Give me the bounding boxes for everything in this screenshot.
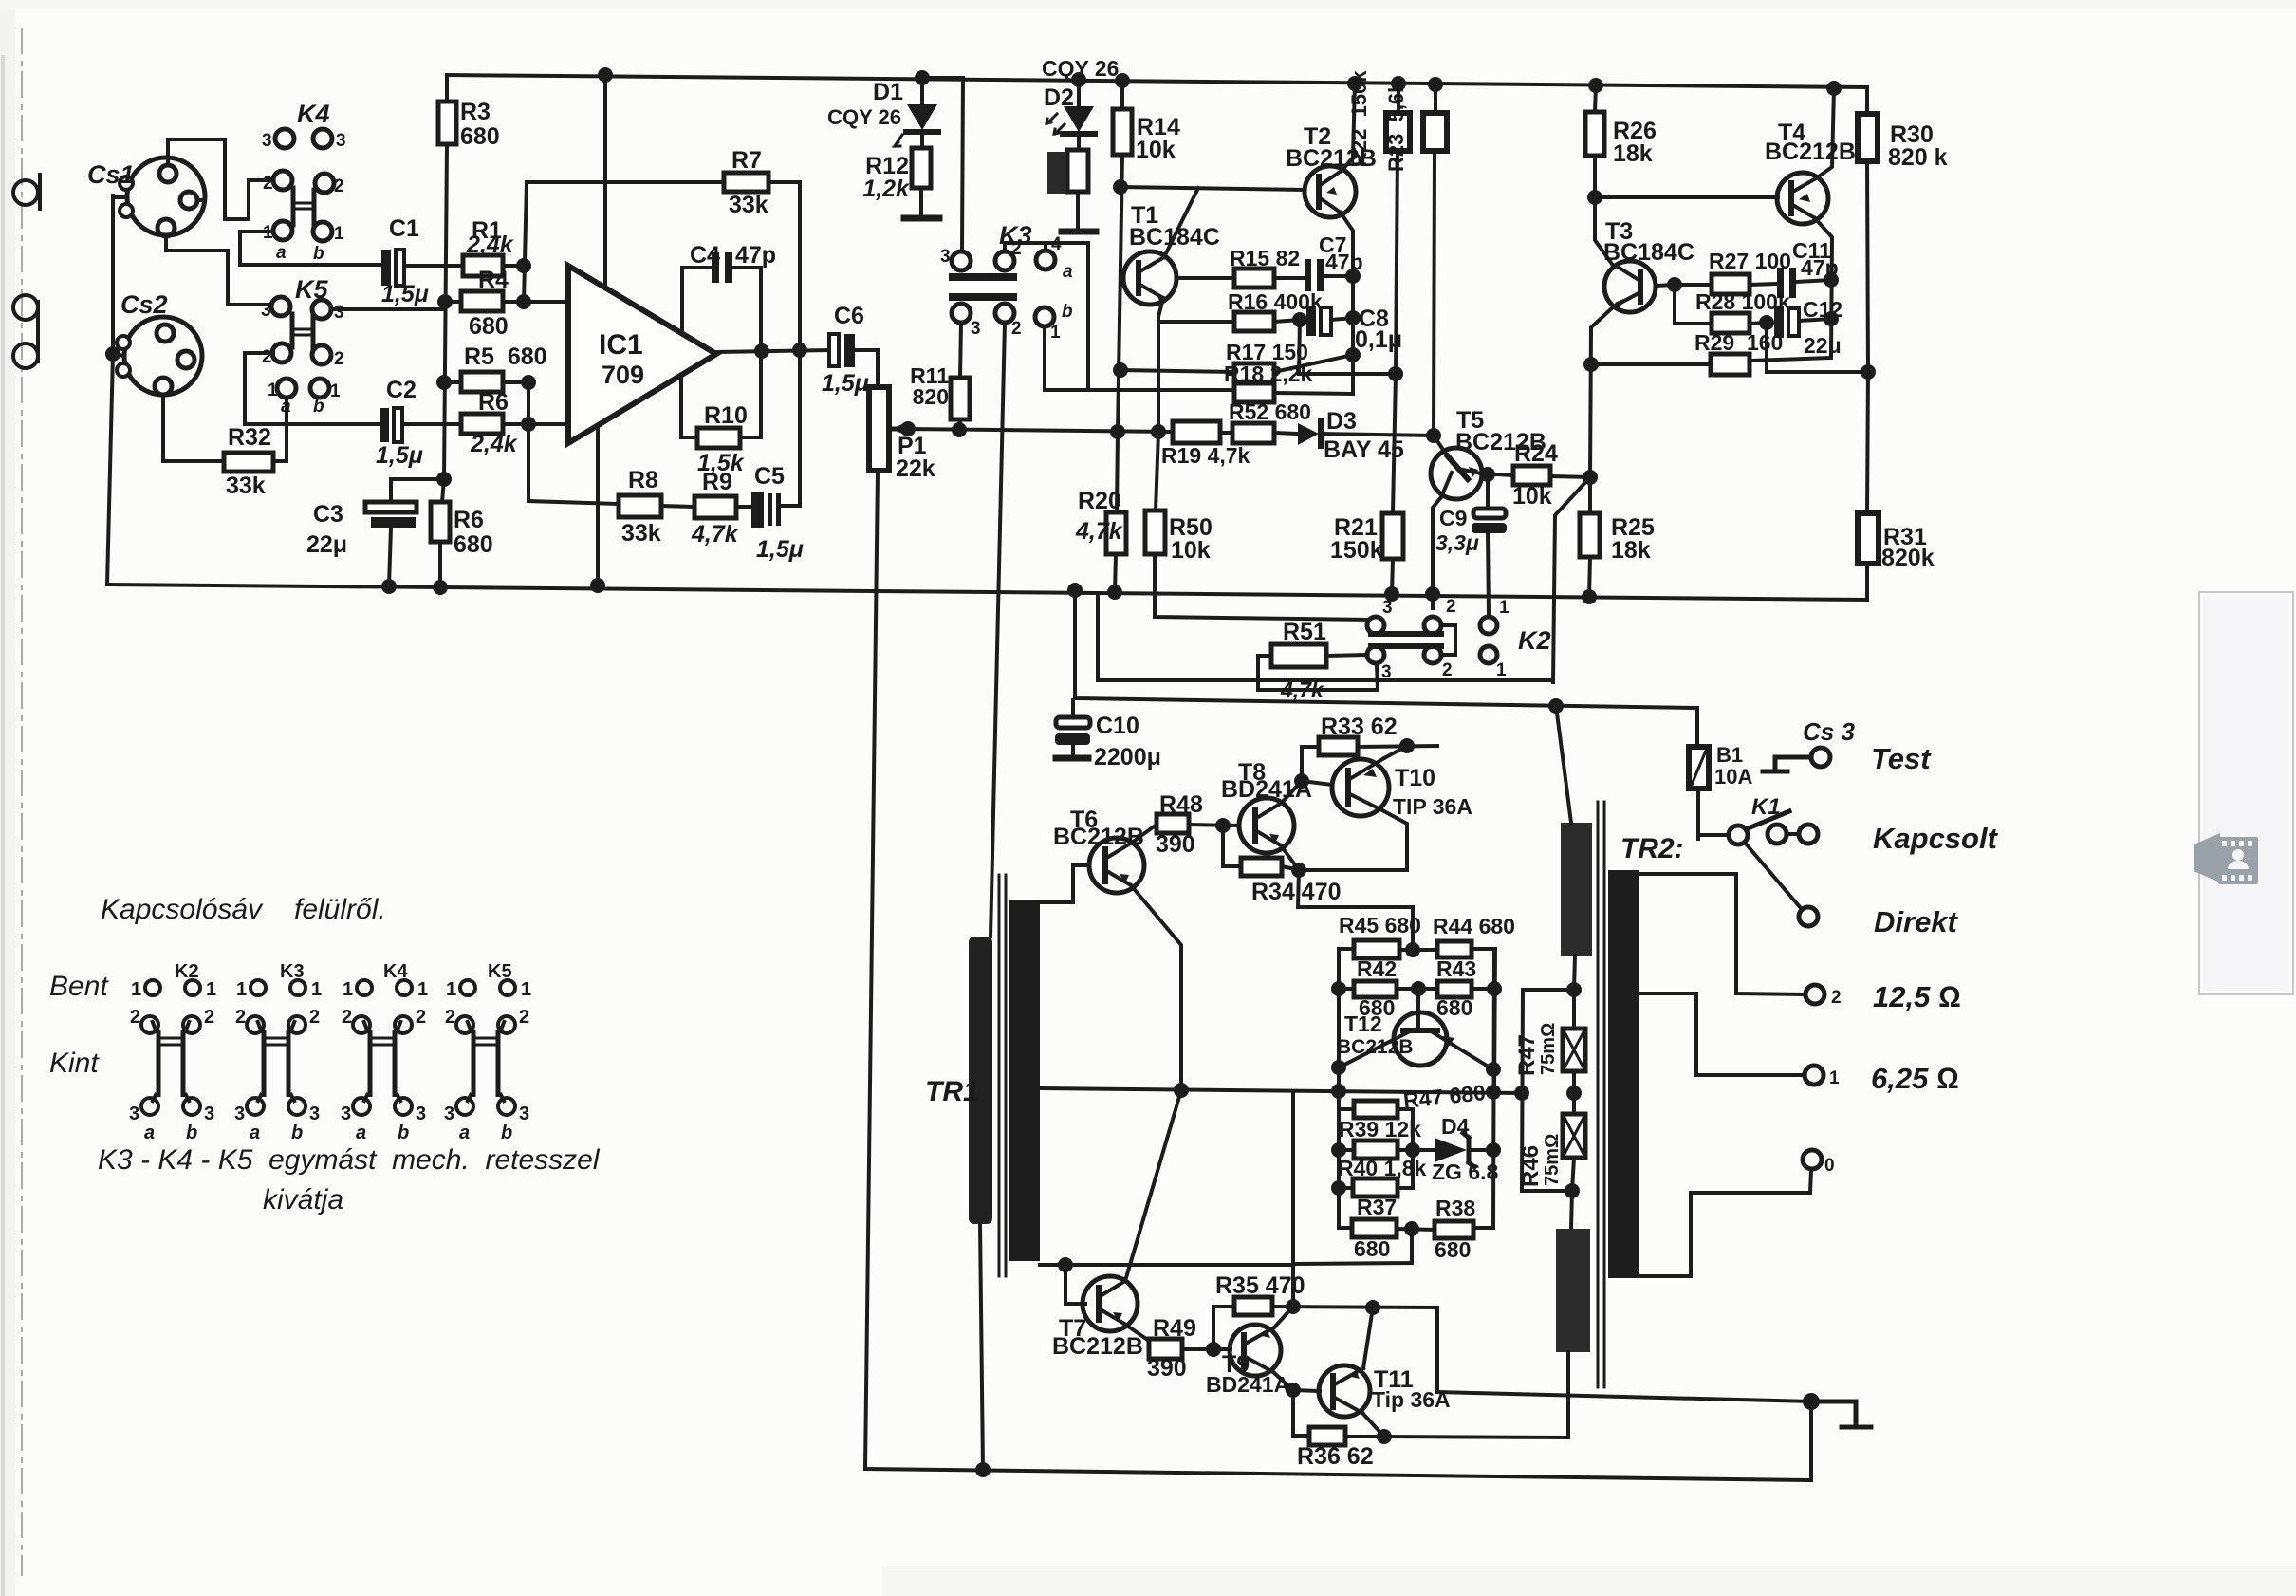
wire T9 collector	[1274, 1307, 1293, 1327]
transistor T2	[1305, 166, 1356, 217]
node C8 right	[1347, 312, 1359, 324]
node wiper R20	[1112, 426, 1123, 437]
svg-text:C1: C1	[389, 215, 419, 242]
svg-text:C9: C9	[1439, 506, 1467, 530]
wire T5 emitter branch to K2 box	[1553, 477, 1590, 682]
svg-text:a: a	[1063, 262, 1073, 282]
capacitor C6	[829, 334, 855, 367]
resistor R40	[1353, 1178, 1398, 1197]
wire P1 bottom to ground bus	[865, 471, 878, 1469]
svg-text:BAY 45: BAY 45	[1324, 436, 1404, 463]
resistor R43	[1437, 981, 1472, 997]
svg-text:22μ: 22μ	[1804, 333, 1842, 358]
wire K3 feed from bus	[922, 78, 963, 251]
switch K4	[273, 129, 334, 241]
svg-text:R6: R6	[478, 389, 509, 416]
resistor R22	[1386, 84, 1410, 374]
wire block output drop	[1291, 1091, 1295, 1307]
wire R37 block bottom	[1293, 1229, 1412, 1264]
svg-text:TR2:: TR2:	[1620, 833, 1684, 864]
svg-text:R19 4,7k: R19 4,7k	[1161, 443, 1250, 468]
resistor R37	[1352, 1219, 1397, 1237]
svg-text:R9: R9	[702, 469, 732, 495]
wire top supply bus	[447, 75, 1867, 87]
wire input vertical B	[528, 382, 619, 504]
wire T11 base	[1293, 1390, 1320, 1391]
legend texts	[49, 894, 601, 1216]
svg-text:3: 3	[1382, 598, 1393, 618]
svg-text:Test: Test	[1871, 742, 1932, 775]
svg-text:33k: 33k	[226, 473, 266, 499]
wire R45 R44 row	[1339, 949, 1495, 1092]
wire T3 collector	[1595, 197, 1614, 267]
svg-text:22k: 22k	[896, 455, 935, 482]
svg-text:2,4k: 2,4k	[470, 431, 518, 457]
svg-text:BC184C: BC184C	[1129, 224, 1220, 251]
svg-text:1: 1	[263, 223, 273, 243]
node T1 emitter R16	[1157, 315, 1160, 319]
wire R40 row	[1339, 1150, 1413, 1188]
svg-text:Kint: Kint	[49, 1048, 100, 1079]
svg-text:R23 5,6k: R23 5,6k	[1384, 81, 1408, 172]
node R17 right	[1347, 349, 1359, 361]
resistor R21	[1382, 374, 1403, 594]
svg-text:K3 - K4 - K5 egymást mech.: K3 - K4 - K5 egymást mech. retesszel	[98, 1144, 601, 1176]
svg-text:1: 1	[1050, 323, 1061, 343]
svg-text:R46: R46	[1518, 1145, 1544, 1187]
svg-text:2: 2	[334, 176, 344, 196]
svg-text:D1: D1	[873, 79, 903, 105]
svg-text:CQY 26: CQY 26	[827, 105, 901, 129]
node IC1 vplus bus	[600, 69, 611, 81]
resistor R50	[1145, 432, 1369, 620]
transformer TR2 core	[1598, 802, 1604, 1387]
node T5 collector ground	[1427, 588, 1438, 600]
resistor R47b 680	[1339, 1101, 1413, 1150]
resistor R38	[1435, 1221, 1473, 1238]
feedback R8 R9 C5 row	[619, 350, 800, 507]
wire K5 2a to C2	[245, 353, 380, 424]
node R20 ground	[1109, 586, 1120, 598]
wire Cs2 left link	[113, 354, 124, 356]
resistor R6b 680	[431, 479, 450, 587]
svg-text:BD241A: BD241A	[1206, 1372, 1289, 1397]
resistor R24	[1513, 466, 1550, 485]
node bus R14	[1117, 75, 1128, 86]
resistor R44	[1437, 941, 1472, 957]
wire T8 emitter to R45 rail	[1298, 870, 1413, 950]
wire supply mid rail	[1075, 590, 1697, 708]
diode D3	[1298, 421, 1434, 446]
resistor R36	[1293, 1390, 1384, 1445]
svg-text:1: 1	[268, 380, 278, 400]
switch K2	[1367, 617, 1497, 663]
wire R5 row	[444, 380, 528, 384]
wire T2 base row	[1120, 187, 1305, 190]
svg-text:R45 680: R45 680	[1339, 913, 1421, 937]
node output C4	[756, 345, 768, 357]
svg-text:47p: 47p	[735, 242, 776, 269]
svg-text:b: b	[186, 1123, 197, 1143]
resistor R28	[1712, 313, 1750, 333]
wire ground bus upper	[107, 585, 1867, 600]
rotated value labels	[1347, 70, 1563, 1187]
svg-text:b: b	[1062, 302, 1073, 322]
svg-text:b: b	[313, 244, 324, 264]
wire R37 R38 row	[1397, 1229, 1435, 1230]
wire R17 row	[1120, 355, 1353, 372]
node R47 R46 mid	[1568, 1087, 1580, 1099]
resistor R49	[1149, 1339, 1182, 1359]
node C8 left	[1294, 314, 1305, 325]
transistor T8	[1239, 798, 1294, 853]
svg-text:Tip 36A: Tip 36A	[1372, 1387, 1451, 1412]
node R5 row bias	[438, 377, 450, 388]
wire R48 to T8	[1189, 825, 1239, 826]
node T9 base	[1208, 1344, 1219, 1355]
svg-text:R47: R47	[1514, 1034, 1540, 1076]
svg-text:2: 2	[1831, 988, 1842, 1008]
resistor R10	[697, 428, 740, 448]
resistor R11	[951, 378, 970, 419]
svg-text:3: 3	[129, 1104, 139, 1124]
transistor T6	[1089, 838, 1144, 893]
node R24 R25	[1584, 472, 1596, 483]
svg-text:2200μ: 2200μ	[1094, 744, 1161, 770]
node R21 ground	[1386, 588, 1398, 600]
node C7 emitter rail	[1347, 270, 1359, 282]
svg-text:R5 680: R5 680	[464, 343, 547, 370]
svg-text:33k: 33k	[621, 520, 661, 547]
resistor R42	[1354, 981, 1397, 997]
wire T2 collector to bus	[1342, 84, 1355, 171]
svg-text:820 k: 820 k	[1888, 144, 1948, 171]
node R6 right	[523, 418, 534, 430]
node T12 collector	[1488, 1064, 1499, 1075]
svg-text:R36 62: R36 62	[1297, 1443, 1374, 1470]
wire R11 bottom	[959, 419, 960, 430]
svg-text:T10: T10	[1395, 765, 1435, 791]
node T11 emitter	[1379, 1431, 1390, 1442]
node R29 emitter rail	[1585, 359, 1597, 370]
svg-text:75mΩ: 75mΩ	[1542, 1134, 1563, 1186]
wire R14 bottom rail	[1118, 155, 1122, 432]
svg-text:R8: R8	[628, 467, 658, 493]
svg-text:R3: R3	[460, 99, 491, 125]
left margin scan line	[21, 28, 23, 1575]
svg-text:R42: R42	[1357, 956, 1397, 981]
wire T9 emitter	[1273, 1372, 1293, 1390]
resistor R3	[438, 102, 456, 144]
svg-text:1: 1	[1499, 598, 1509, 618]
wire Cs1 left link	[113, 195, 127, 199]
svg-text:1: 1	[1496, 660, 1507, 680]
fuse B1	[1689, 708, 1709, 839]
wire C8 node to R21 rail	[1299, 320, 1396, 374]
bottom scan shade	[882, 1566, 2296, 1596]
wire R27 row	[1675, 284, 1777, 285]
resistor R5	[461, 372, 503, 392]
wire bus end to R31	[1865, 564, 1869, 600]
wire T2 emitter rail	[1274, 213, 1353, 394]
svg-text:CQY 26: CQY 26	[1042, 56, 1119, 81]
transistor T9	[1230, 1325, 1281, 1376]
wire block right rail	[1473, 949, 1494, 1228]
wire K2 box	[1098, 594, 1553, 680]
svg-text:T12: T12	[1344, 1011, 1382, 1036]
node wiper a	[902, 423, 914, 435]
legend switch symbols	[141, 980, 515, 1115]
resistor R27	[1712, 274, 1750, 294]
wire IC1 vplus	[603, 75, 607, 288]
terminal 0	[1803, 1150, 1822, 1169]
node D4 right	[1488, 1144, 1499, 1156]
svg-text:2: 2	[1446, 597, 1456, 617]
capacitor C2	[380, 408, 402, 442]
wire TR1 primary bottom	[980, 1224, 983, 1470]
svg-text:C12: C12	[1803, 297, 1842, 322]
wire Cs1 top to K4 pin 2a	[168, 139, 272, 219]
wire T7 collector long	[1125, 1090, 1181, 1281]
node T7 base tap	[1060, 1259, 1071, 1271]
svg-text:kivátja: kivátja	[263, 1184, 343, 1216]
wire R47 bypass left	[1522, 990, 1574, 1191]
resistor R1	[463, 255, 503, 276]
svg-text:R28 100k: R28 100k	[1695, 289, 1790, 314]
wire R32 to K5 pin 1a	[273, 398, 287, 461]
wire T4 emitter rail	[1750, 218, 1832, 361]
node T6 T7 mid	[1176, 1085, 1187, 1096]
wire K4 pin 1a to C1	[240, 232, 382, 265]
wire R39 row	[1339, 1148, 1435, 1152]
node T8 base	[1217, 820, 1229, 831]
node T4 base	[1589, 192, 1601, 203]
node bypass mid	[1516, 1087, 1528, 1099]
resistor R14	[1113, 81, 1132, 155]
svg-text:R37: R37	[1357, 1195, 1397, 1219]
svg-text:820k: 820k	[1881, 545, 1935, 571]
svg-text:R40 1,8k: R40 1,8k	[1338, 1156, 1427, 1180]
wire R7 row	[527, 182, 800, 349]
wire T4 base row	[1595, 195, 1778, 199]
svg-text:2: 2	[1442, 660, 1453, 680]
node R22 bus	[1393, 78, 1404, 89]
svg-text:TR1: TR1	[925, 1076, 979, 1107]
svg-text:R44 680: R44 680	[1433, 914, 1515, 938]
svg-text:R20: R20	[1078, 488, 1121, 514]
svg-text:R35 470: R35 470	[1215, 1272, 1305, 1299]
resistor R15	[1234, 269, 1274, 288]
wire T5 collector to K2 pin2	[1431, 594, 1435, 608]
wire C3 branch	[391, 477, 444, 481]
node R37 R38	[1406, 1223, 1417, 1234]
sticker panel right edge	[2194, 592, 2293, 994]
svg-text:C2: C2	[386, 377, 417, 403]
transformer TR2 primary winding lower	[1384, 1191, 1590, 1438]
op-amp IC1	[568, 266, 716, 443]
svg-text:K1: K1	[1751, 794, 1781, 820]
transformer TR1 core	[999, 875, 1006, 1276]
svg-text:3,3μ: 3,3μ	[1435, 530, 1479, 555]
svg-text:R4: R4	[478, 267, 509, 293]
wire TR2 tap 0	[1639, 1170, 1811, 1276]
node R17 left	[1115, 364, 1126, 376]
connector Cs1	[120, 158, 205, 236]
node T3 base	[1669, 279, 1680, 290]
svg-text:K5: K5	[295, 275, 328, 304]
svg-text:C5: C5	[754, 463, 785, 490]
capacitor C8	[1306, 306, 1353, 336]
node wiper R50	[1153, 426, 1164, 437]
resistor R29	[1711, 354, 1750, 375]
svg-text:6,25 Ω: 6,25 Ω	[1871, 1062, 1959, 1095]
wire K3 pin3 to R11	[960, 323, 961, 378]
node R6b ground	[435, 582, 446, 593]
wire T6 emitter long	[1131, 885, 1181, 1090]
svg-text:BC212B: BC212B	[1053, 824, 1144, 850]
svg-text:R10: R10	[704, 402, 748, 429]
resistor R34	[1223, 826, 1299, 876]
node T8 emitter	[1293, 864, 1305, 876]
svg-text:Bent: Bent	[49, 971, 109, 1002]
node R5 right	[523, 377, 534, 388]
resistor R8	[619, 495, 661, 517]
punch-hole mark a	[13, 175, 40, 209]
svg-text:680: 680	[454, 531, 493, 558]
resistor R9	[694, 496, 736, 518]
wire R19 R52 row	[1220, 433, 1298, 434]
svg-text:1,2k: 1,2k	[862, 176, 910, 202]
wire R3 bias rail	[444, 144, 447, 479]
node R25 ground	[1583, 591, 1595, 603]
diode D2	[1046, 80, 1095, 150]
switch K3	[949, 251, 1055, 326]
node R30 rail	[1862, 366, 1874, 378]
svg-text:BD241A: BD241A	[1221, 776, 1312, 803]
svg-text:R24: R24	[1514, 440, 1558, 467]
wire K3 b-pin to R18	[1045, 326, 1234, 390]
node C12 right	[1825, 313, 1837, 325]
svg-text:C6: C6	[834, 303, 864, 329]
svg-text:Cs 3: Cs 3	[1803, 717, 1855, 746]
resistor R33	[1302, 737, 1437, 781]
node T2 base row	[1115, 181, 1126, 193]
svg-text:12,5 Ω: 12,5 Ω	[1873, 980, 1961, 1013]
svg-text:R15 82: R15 82	[1230, 246, 1300, 270]
node C3 top	[438, 473, 450, 485]
wire IC1 output	[716, 350, 829, 352]
wire K3 a-pin feed	[1005, 243, 1088, 390]
switch K5	[271, 297, 331, 398]
svg-text:felülről.: felülről.	[294, 894, 386, 925]
node mid rail left-block	[1333, 1086, 1344, 1097]
wire T10 collector	[1384, 746, 1407, 758]
svg-text:IC1: IC1	[599, 329, 643, 361]
svg-text:R27 100: R27 100	[1709, 249, 1791, 273]
resistor R25	[1580, 477, 1600, 597]
svg-text:680: 680	[460, 123, 500, 150]
svg-text:a: a	[144, 1123, 155, 1143]
wire Cs2 bottom to R32	[163, 395, 224, 461]
svg-text:22μ: 22μ	[306, 531, 347, 558]
transistor T5	[1431, 436, 1482, 499]
node R45 R44	[1407, 944, 1418, 956]
transistor T7	[1083, 1276, 1138, 1331]
node C11 right	[1825, 274, 1837, 286]
small pin digits	[261, 131, 1842, 1176]
svg-text:680: 680	[1435, 1237, 1471, 1262]
svg-text:R33 62: R33 62	[1321, 714, 1398, 740]
wire bus corner to R30	[1865, 87, 1869, 114]
capacitor C3	[365, 479, 417, 585]
node T9 emitter	[1287, 1384, 1299, 1396]
transformer TR2 secondary bar	[1608, 870, 1639, 1278]
resistor R48	[1157, 814, 1189, 833]
node T2 collector bus	[1349, 78, 1361, 89]
node R40 left	[1333, 1182, 1344, 1194]
wire R4 row	[445, 300, 568, 304]
wire C6 to P1	[855, 350, 878, 387]
wire R24 right	[1550, 476, 1590, 477]
svg-text:a: a	[276, 243, 287, 263]
node T4 collector bus	[1828, 83, 1840, 94]
svg-text:4,7k: 4,7k	[691, 521, 739, 547]
node supply bus tap	[1069, 585, 1081, 596]
svg-text:D2: D2	[1044, 84, 1074, 111]
wire T11 emitter	[1362, 1413, 1384, 1437]
node R39 left	[1333, 1144, 1344, 1156]
node R43 right	[1489, 983, 1500, 994]
svg-text:Cs2: Cs2	[120, 290, 168, 319]
wire T1 collector	[1164, 188, 1198, 257]
svg-text:R7: R7	[731, 147, 762, 174]
wire R3 top to bus	[445, 75, 449, 102]
svg-text:b: b	[313, 397, 324, 417]
node R1 output	[518, 260, 529, 271]
svg-text:2: 2	[130, 1007, 140, 1028]
resistor R32	[224, 453, 273, 472]
svg-text:1: 1	[330, 381, 341, 401]
svg-text:Kapcsolt: Kapcsolt	[1873, 822, 1999, 855]
svg-text:1,5μ: 1,5μ	[376, 442, 423, 469]
wire K5 3b to R4 row	[331, 307, 444, 311]
wire T5 collector	[1433, 497, 1441, 594]
ground output	[1811, 1401, 1871, 1427]
svg-text:3: 3	[1381, 662, 1392, 682]
wire mid rail horizontal	[1041, 1088, 1522, 1093]
resistor R17	[1234, 363, 1274, 382]
wire K3 pin2 to TR1	[991, 323, 1005, 937]
svg-text:Kapcsolósáv: Kapcsolósáv	[101, 894, 264, 925]
svg-text:B1: B1	[1716, 743, 1743, 767]
potentiometer P1	[869, 387, 908, 471]
wire R15 row	[1176, 276, 1305, 280]
svg-text:1: 1	[334, 224, 344, 244]
svg-text:Direkt: Direkt	[1874, 905, 1959, 938]
svg-text:D3: D3	[1326, 408, 1357, 435]
wire R6 row to IC1	[503, 422, 568, 426]
svg-text:R51: R51	[1283, 619, 1326, 645]
wire R28 row	[1675, 285, 1767, 324]
svg-text:820: 820	[913, 384, 949, 409]
transistor T4	[1777, 173, 1828, 224]
wire T4 collector to bus	[1816, 88, 1834, 178]
svg-text:3: 3	[336, 131, 346, 151]
svg-text:3: 3	[204, 1104, 214, 1124]
svg-text:2: 2	[263, 174, 273, 194]
svg-text:3: 3	[261, 301, 271, 321]
svg-text:75mΩ: 75mΩ	[1538, 1023, 1559, 1075]
